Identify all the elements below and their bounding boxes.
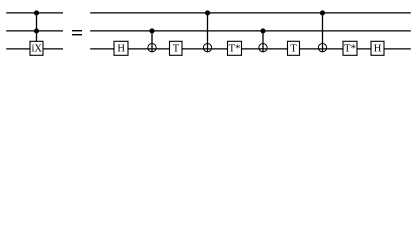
gate box iX xyxy=(30,41,43,55)
svg-text:T*: T* xyxy=(229,43,241,54)
svg-text:T: T xyxy=(173,43,180,54)
svg-text:T: T xyxy=(290,43,297,54)
svg-text:T*: T* xyxy=(344,43,356,54)
control dot q0 left xyxy=(34,10,39,15)
cnot target circle 1 xyxy=(148,44,156,52)
cnot target circle 2 xyxy=(203,44,211,52)
svg-text:H: H xyxy=(117,43,125,54)
gate box T first xyxy=(170,41,183,55)
control vertical wire cnot2 xyxy=(207,13,209,52)
control dot q1 cnot3 xyxy=(260,28,265,33)
cnot target circle 3 xyxy=(259,44,267,52)
control vertical wire cnot1 xyxy=(151,31,153,52)
wire q0 left segment xyxy=(6,12,63,14)
svg-text:iX: iX xyxy=(31,43,42,54)
gate box H second xyxy=(371,41,384,55)
equals sign bottom bar xyxy=(72,34,82,35)
control vertical wire cnot4 xyxy=(322,13,324,52)
wire q1 left segment xyxy=(6,30,63,32)
gate box T second xyxy=(288,41,300,55)
cnot target circle 4 xyxy=(318,44,326,52)
control dot q0 cnot2 xyxy=(205,10,210,15)
control vertical wire cnot3 xyxy=(262,31,264,52)
control vertical wire left gate xyxy=(36,13,38,42)
gate box T-star second xyxy=(343,41,357,55)
equals sign top bar xyxy=(72,30,82,31)
svg-text:H: H xyxy=(374,43,382,54)
gate box T-star first xyxy=(228,41,242,55)
wire q1 right segment xyxy=(90,30,411,32)
wire q2 right segment xyxy=(90,48,411,50)
control dot q1 cnot1 xyxy=(149,28,154,33)
control dot q0 cnot4 xyxy=(320,10,325,15)
wire q0 right segment xyxy=(90,12,411,14)
wire q2 left segment xyxy=(6,48,63,50)
control dot q1 left xyxy=(34,28,39,33)
gate box H first xyxy=(114,41,128,55)
